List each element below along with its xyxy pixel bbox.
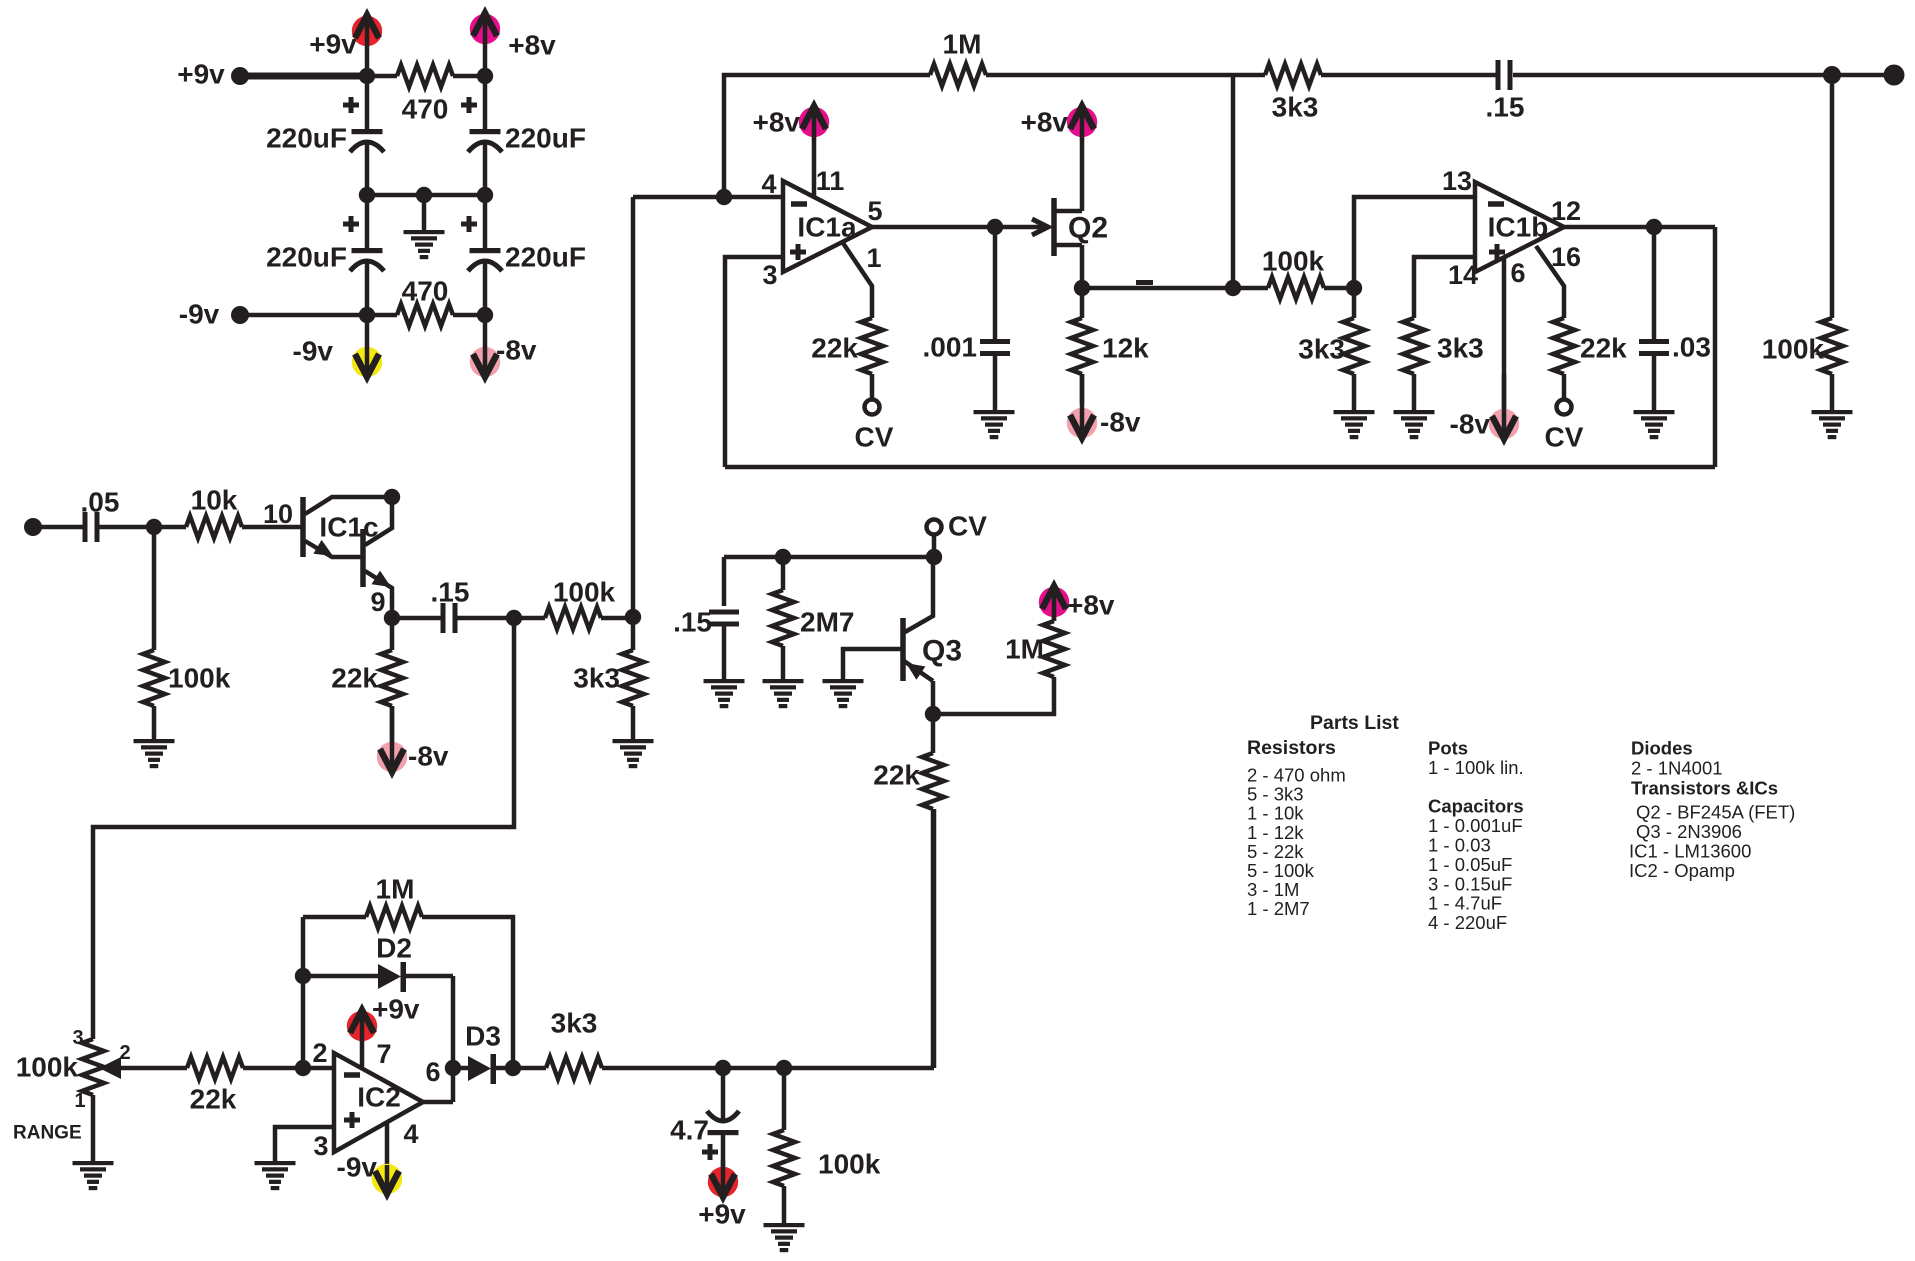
svg-text:220uF: 220uF [266, 242, 347, 273]
svg-text:3: 3 [313, 1131, 328, 1161]
junction D3 anode node [445, 1060, 461, 1076]
junction +8v rail [477, 68, 493, 84]
svg-text:6: 6 [1510, 258, 1525, 288]
svg-text:1 - 0.05uF: 1 - 0.05uF [1428, 854, 1512, 875]
junction IC1c collectors [384, 489, 400, 505]
svg-text:1M: 1M [376, 874, 415, 905]
pin 4 label [403, 1119, 418, 1149]
capacitor 4.7 [670, 1068, 739, 1168]
power +9v arrow (4.7 cap) [698, 1160, 746, 1230]
svg-text:-9v: -9v [179, 299, 220, 330]
wire cap to mid rail right [483, 143, 488, 195]
svg-text:2: 2 [312, 1038, 327, 1068]
wire input to cap [33, 525, 84, 530]
svg-text:Parts List: Parts List [1310, 712, 1399, 734]
svg-text:5 - 100k: 5 - 100k [1247, 860, 1315, 881]
svg-text:.15: .15 [1486, 92, 1525, 123]
svg-text:3 - 1M: 3 - 1M [1247, 879, 1299, 900]
svg-text:1 - 4.7uF: 1 - 4.7uF [1428, 893, 1502, 914]
pin 6 label [1510, 258, 1525, 288]
wire IC2 pin4 [385, 1122, 390, 1167]
wire pin4 junction to left branch [633, 195, 724, 200]
pin 13 label [1442, 166, 1472, 196]
svg-text:4: 4 [761, 169, 776, 199]
wire pin9 to cap .15 [392, 616, 442, 621]
node +9v input terminal [177, 59, 249, 90]
svg-text:7: 7 [376, 1039, 391, 1069]
wire Q3 emitter [931, 681, 936, 714]
wire 22k to pin2 [243, 1066, 334, 1071]
wire mid rail [367, 193, 485, 198]
svg-text:.03: .03 [1672, 332, 1711, 363]
svg-text:CV: CV [948, 511, 987, 542]
wire 3k3 to output rail [602, 1066, 934, 1071]
svg-text:IC2: IC2 [357, 1082, 401, 1113]
ground (.001) [974, 410, 1015, 439]
resistor 470 (bottom) [397, 276, 453, 327]
ground (power supply) [404, 195, 445, 259]
svg-text:D2: D2 [376, 933, 412, 964]
svg-text:3 - 0.15uF: 3 - 0.15uF [1428, 873, 1512, 894]
wire to R 470 bottom [367, 313, 397, 318]
svg-text:3: 3 [72, 1027, 83, 1049]
wire cap .15 to right end [1513, 73, 1894, 78]
svg-text:+9v: +9v [372, 994, 420, 1025]
pin 16 label [1551, 242, 1581, 272]
power -9v arrow (IC2) [337, 1152, 403, 1196]
pin 1 label [866, 243, 881, 273]
svg-text:Capacitors: Capacitors [1428, 796, 1524, 817]
wire 470 to +8v rail [453, 74, 485, 79]
svg-text:+9v: +9v [309, 29, 357, 60]
svg-text:-9v: -9v [293, 336, 334, 367]
ground (3k3 pin13) [1334, 410, 1375, 439]
svg-text:3k3: 3k3 [1272, 92, 1319, 123]
power +9v arrow [309, 15, 382, 76]
wire mid to lower cap left [365, 195, 370, 250]
svg-text:.15: .15 [431, 577, 470, 608]
svg-text:Pots: Pots [1428, 738, 1468, 759]
wire Q2 source [1080, 245, 1085, 288]
svg-text:12k: 12k [1102, 333, 1149, 364]
pin 14 label [1448, 260, 1478, 290]
svg-text:+8v: +8v [1021, 107, 1069, 138]
svg-text:1 - 0.001uF: 1 - 0.001uF [1428, 815, 1523, 836]
resistor 3k3 (IC2 out) [546, 1008, 602, 1080]
pin 6 label [425, 1057, 440, 1087]
potentiometer 100k RANGE [13, 1027, 187, 1162]
junction CV rail right [926, 549, 942, 565]
wire IC2 pin7 [360, 1040, 365, 1068]
junction 100k left [1225, 280, 1241, 296]
transistor IC1c darlington [303, 497, 392, 618]
pin 10 label [263, 499, 293, 529]
svg-text:1 - 0.03: 1 - 0.03 [1428, 835, 1491, 856]
resistor 470 (top) [397, 65, 453, 125]
ground (3k3 pin14) [1394, 410, 1435, 439]
wire -9v input [240, 313, 367, 318]
svg-text:CV: CV [855, 422, 894, 453]
svg-text:.05: .05 [81, 487, 120, 518]
resistor 100k (mid) [545, 577, 616, 630]
wire left branch vertical [631, 197, 636, 617]
wire pin2 to feedback [301, 917, 306, 1068]
capacitor 220uF (top-left) [266, 97, 384, 154]
wire Q2 drain [1080, 138, 1085, 211]
wire cap to mid rail [365, 143, 370, 195]
svg-text:.001: .001 [923, 332, 978, 363]
diode D3 [453, 1021, 546, 1085]
svg-text:+8v: +8v [753, 107, 801, 138]
svg-text:220uF: 220uF [505, 242, 586, 273]
node top right end [1884, 65, 1905, 86]
svg-text:IC2 - Opamp: IC2 - Opamp [1629, 860, 1735, 881]
svg-text:22k: 22k [1580, 333, 1627, 364]
wire IC2 output [423, 1100, 453, 1105]
junction pin2 node [295, 1060, 311, 1076]
junction IC1b pin13 node [1346, 280, 1362, 296]
pin 11 label [816, 166, 845, 196]
svg-text:11: 11 [816, 166, 845, 196]
capacitor .03 [1639, 227, 1711, 411]
parts list diodes and transistors column [1629, 738, 1795, 881]
wire IC1b pin13 [1354, 197, 1475, 288]
svg-text:4.7: 4.7 [670, 1115, 709, 1146]
svg-text:2: 2 [119, 1042, 130, 1064]
wire output rail up [932, 809, 937, 1068]
svg-text:-8v: -8v [1100, 407, 1141, 438]
junction top right [1823, 66, 1841, 84]
pin 2 label [312, 1038, 327, 1068]
resistor 2M7 [772, 557, 854, 680]
wire CV rail [724, 555, 934, 560]
junction +9v rail [359, 68, 375, 84]
node -9v input terminal [179, 299, 249, 330]
svg-text:5 - 3k3: 5 - 3k3 [1247, 784, 1304, 805]
svg-text:22k: 22k [331, 663, 378, 694]
svg-text:3k3: 3k3 [573, 663, 620, 694]
svg-text:Resistors: Resistors [1247, 737, 1336, 759]
wire IC1a pin11 [812, 138, 817, 197]
svg-text:100k: 100k [818, 1149, 881, 1180]
svg-text:Q2: Q2 [1068, 212, 1108, 245]
op-amp IC1b [1475, 182, 1564, 272]
svg-text:1: 1 [74, 1090, 85, 1112]
svg-text:Transistors &ICs: Transistors &ICs [1631, 778, 1778, 799]
power +8v arrow (Q2) [1021, 106, 1098, 140]
svg-text:1M: 1M [943, 29, 982, 60]
junction 3k3 node [625, 609, 641, 625]
resistor 3k3 (pin13) [1298, 288, 1365, 411]
ground (.03) [1634, 410, 1675, 439]
junction Q3 emitter node [925, 706, 941, 722]
svg-text:+8v: +8v [1067, 590, 1115, 621]
resistor 22k (IC1a pin1) [811, 243, 883, 400]
node CV terminal (IC1b) [1545, 400, 1584, 453]
pin 3 label [762, 260, 777, 290]
svg-text:CV: CV [1545, 422, 1584, 453]
junction 2M7 top [775, 549, 791, 565]
svg-text:220uF: 220uF [266, 123, 347, 154]
wire Q2 source to 100k [1082, 286, 1233, 291]
wire 1M right leg [1231, 75, 1236, 288]
wire top rail left [724, 75, 930, 197]
wire cap .15 to 100k [457, 616, 545, 621]
svg-text:2 - 470 ohm: 2 - 470 ohm [1247, 765, 1346, 786]
diode D2 [303, 933, 453, 993]
pin 3 label [313, 1131, 328, 1161]
svg-text:10k: 10k [191, 485, 238, 516]
svg-text:Q3 - 2N3906: Q3 - 2N3906 [1636, 821, 1742, 842]
resistor 22k (pin16) [1536, 246, 1627, 400]
capacitor 220uF (bottom-left) [266, 216, 384, 273]
wire 470 to -8v rail [453, 313, 485, 318]
power -8v arrow (IC1b pin6) [1450, 374, 1520, 440]
svg-text:22k: 22k [190, 1084, 237, 1115]
wire IC2 pin3 [275, 1127, 334, 1162]
svg-text:3: 3 [762, 260, 777, 290]
ground (pot) [73, 1161, 114, 1190]
ground (2M7) [763, 679, 804, 708]
svg-text:12: 12 [1551, 196, 1581, 226]
svg-text:3k3: 3k3 [1298, 334, 1345, 365]
svg-text:470: 470 [402, 94, 449, 125]
junction D2 anode node [295, 968, 311, 984]
svg-text:1: 1 [866, 243, 881, 273]
svg-text:16: 16 [1551, 242, 1581, 272]
svg-text:4 - 220uF: 4 - 220uF [1428, 912, 1507, 933]
svg-text:IC1c: IC1c [319, 512, 378, 543]
node CV terminal (Q3) [927, 511, 988, 542]
junction -9v rail [359, 307, 375, 323]
ground (100k right) [1812, 410, 1853, 439]
wire CV to rail [932, 534, 937, 557]
junction pin9 node [384, 610, 400, 626]
svg-text:220uF: 220uF [505, 123, 586, 154]
wire +8v rail down [483, 76, 488, 131]
svg-text:-9v: -9v [337, 1152, 378, 1183]
junction IC1a pin4 [716, 189, 732, 205]
svg-text:1 - 2M7: 1 - 2M7 [1247, 898, 1310, 919]
power -9v arrow [293, 315, 383, 378]
wire overlap dash [1136, 280, 1153, 285]
wire to R 470 top [367, 74, 397, 79]
svg-text:100k: 100k [168, 663, 231, 694]
power +8v arrow (IC1a) [753, 106, 830, 140]
wire IC1a output [872, 225, 1043, 230]
wire top rail middle [986, 73, 1265, 78]
svg-text:1 - 10k: 1 - 10k [1247, 803, 1304, 824]
capacitor 220uF (bottom-right) [461, 216, 586, 273]
svg-text:D3: D3 [465, 1021, 501, 1052]
svg-text:6: 6 [425, 1057, 440, 1087]
pin 7 label [376, 1039, 391, 1069]
node input terminal [24, 518, 42, 536]
wire Q3 base [843, 649, 903, 680]
resistor 3k3 (mid) [573, 617, 644, 740]
wire IC1b pin14 [1414, 257, 1475, 318]
resistor 1M (IC2 feedback) [303, 874, 513, 1069]
power +8v arrow (supply) [470, 13, 556, 76]
svg-text:14: 14 [1448, 260, 1478, 290]
svg-text:-8v: -8v [1450, 409, 1491, 440]
svg-text:22k: 22k [811, 333, 858, 364]
junction mid-left [359, 187, 375, 203]
power -8v arrow (22k pin9) [377, 706, 449, 773]
svg-text:.15: .15 [673, 607, 712, 638]
wire +9v input [240, 73, 367, 80]
resistor 3k3 (top) [1265, 64, 1321, 123]
junction -8v rail [477, 307, 493, 323]
pin 5 label [867, 196, 882, 226]
pin 12 label [1551, 196, 1581, 226]
resistor 1M (feedback) [930, 29, 986, 87]
svg-text:1M: 1M [1005, 634, 1044, 665]
ground (3k3 mid) [613, 739, 654, 768]
pin 9 label [370, 587, 385, 617]
svg-text:13: 13 [1442, 166, 1472, 196]
ground (.15 Q3) [704, 679, 745, 708]
svg-text:+8v: +8v [508, 30, 556, 61]
svg-text:22k: 22k [873, 760, 920, 791]
wire 100k to 3k3 node [601, 616, 633, 621]
svg-text:470: 470 [402, 276, 449, 307]
resistor 12k [1071, 288, 1149, 404]
svg-text:100k: 100k [1762, 334, 1825, 365]
svg-text:4: 4 [403, 1119, 418, 1149]
power +9v arrow (IC2) [347, 994, 420, 1043]
resistor 22k (pin9) [331, 618, 403, 744]
resistor 100k (input) [143, 527, 231, 740]
svg-text:Q3: Q3 [922, 635, 962, 668]
junction 100k bottom node [776, 1060, 792, 1076]
junction 4.7 cap node [715, 1060, 731, 1076]
wire 10k to IC1c base [242, 525, 302, 530]
capacitor .15 (top) [1486, 60, 1525, 123]
power -8v arrow (12k) [1067, 374, 1141, 439]
ground (input 100k) [134, 739, 175, 768]
op-amp IC2 [334, 1053, 423, 1152]
wire IC1b pin6 [1502, 257, 1507, 436]
svg-text:IC1b: IC1b [1488, 212, 1549, 243]
wire feedback box right [1713, 227, 1718, 467]
junction mid-center [416, 187, 432, 203]
op-amp IC1a [783, 181, 872, 272]
wire 3k3 to cap .15 [1321, 73, 1496, 78]
capacitor .05 [81, 487, 120, 543]
svg-text:RANGE: RANGE [13, 1123, 82, 1144]
wire feedback box bottom [725, 465, 1715, 470]
svg-text:2 - 1N4001: 2 - 1N4001 [1631, 758, 1723, 779]
svg-text:9: 9 [370, 587, 385, 617]
junction .03 node [1646, 219, 1662, 235]
svg-text:IC1a: IC1a [797, 212, 857, 243]
svg-text:1 - 12k: 1 - 12k [1247, 822, 1304, 843]
resistor 100k (right) [1762, 75, 1843, 411]
svg-text:10: 10 [263, 499, 293, 529]
parts list title [1310, 712, 1399, 734]
resistor 100k (bottom) [773, 1068, 881, 1224]
capacitor .15 (Q3) [673, 557, 739, 680]
junction Q2 source [1074, 280, 1090, 296]
wire IC1b output [1564, 225, 1715, 230]
transistor Q3 [903, 557, 962, 681]
svg-text:+9v: +9v [177, 59, 225, 90]
svg-text:+9v: +9v [698, 1199, 746, 1230]
node CV terminal (IC1a) [855, 400, 894, 453]
svg-text:100k: 100k [1262, 246, 1325, 277]
wire +9v rail down [365, 76, 370, 131]
pin 4 label [761, 169, 776, 199]
resistor 100k (Q2 to IC1b) [1233, 246, 1354, 300]
svg-text:-8v: -8v [496, 335, 537, 366]
svg-text:2M7: 2M7 [800, 607, 854, 638]
wire pin4 input [724, 195, 783, 200]
wire IC1a pin3 [725, 257, 783, 467]
junction D3 cathode node [505, 1060, 521, 1076]
svg-text:3k3: 3k3 [1437, 333, 1484, 364]
svg-text:100k: 100k [553, 577, 616, 608]
svg-text:-8v: -8v [408, 741, 449, 772]
svg-text:Q2 - BF245A (FET): Q2 - BF245A (FET) [1636, 802, 1795, 823]
svg-text:1 - 100k lin.: 1 - 100k lin. [1428, 757, 1524, 778]
junction mid-right [477, 187, 493, 203]
resistor 10k [186, 485, 242, 539]
svg-text:IC1 - LM13600: IC1 - LM13600 [1629, 841, 1751, 862]
svg-text:3k3: 3k3 [551, 1008, 598, 1039]
wire lower cap to -9v rail [365, 262, 370, 315]
transistor Q2 [1054, 198, 1108, 256]
wire cap .05 to 10k [98, 525, 186, 530]
resistor 22k (Q3) [873, 714, 944, 1068]
wire lower cap to -8v rail right [483, 262, 488, 315]
resistor 1M (Q3) [933, 590, 1065, 714]
resistor 22k (IC2 input) [187, 1057, 243, 1115]
junction .001 node [987, 219, 1003, 235]
wire arrowhead into Q2 gate [1032, 219, 1048, 235]
parts list resistors column [1247, 737, 1346, 919]
ground (IC2 pin3) [255, 1161, 296, 1190]
ground (Q3 base) [823, 679, 864, 708]
ground (100k bottom) [764, 1223, 805, 1252]
junction input 100k [146, 519, 162, 535]
capacitor .15 (mid) [431, 577, 470, 634]
capacitor 220uF (top-right) [461, 97, 586, 154]
junction mid node [506, 610, 522, 626]
power +8v arrow (Q3 1M) [1039, 586, 1115, 621]
svg-text:100k: 100k [16, 1052, 79, 1083]
svg-text:Diodes: Diodes [1631, 738, 1693, 759]
power -8v arrow (supply) [470, 315, 537, 378]
wire D2 to pin6 node [451, 976, 456, 1102]
resistor 3k3 (pin14) [1403, 318, 1484, 411]
svg-text:5 - 22k: 5 - 22k [1247, 841, 1304, 862]
capacitor .001 [923, 227, 1011, 411]
svg-text:5: 5 [867, 196, 882, 226]
wire mid to lower cap right [483, 195, 488, 250]
parts list pots and capacitors column [1428, 738, 1524, 934]
wire mid node to range pot [93, 618, 514, 1039]
